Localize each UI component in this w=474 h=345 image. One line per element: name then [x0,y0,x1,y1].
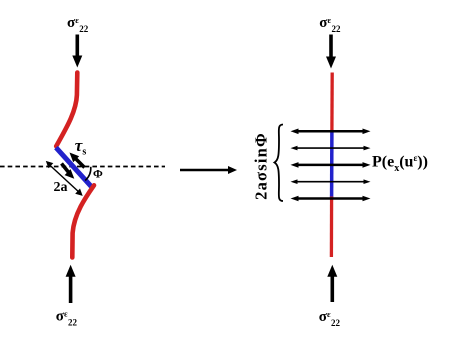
svg-text:Φ: Φ [93,167,103,181]
bottom arrow right (upward) [327,265,337,302]
red crack upper arm [56,73,77,147]
red straight crack upper part (right panel) [330,73,334,133]
angle arc Phi [85,167,91,181]
distributed load arrow 2 [291,146,371,151]
red crack lower vertical end + bottom arrow left (upward) [66,265,76,303]
label sigma^e_22 bottom-right [319,309,341,328]
distributed load arrow 1 [291,129,371,135]
label sigma^e_22 bottom-left [56,308,78,327]
2a double arrow [46,161,83,196]
red crack lower arm [72,185,94,257]
label sigma^e_22 top-left [67,15,89,34]
label sigma^e_22 top-right [319,15,341,34]
svg-text:22: 22 [68,317,78,327]
svg-text:2aσsinΦ: 2aσsinΦ [252,132,271,200]
blue crack segment (left panel) [56,148,91,187]
shear arrow lower (points down-right) [62,164,75,179]
distributed load arrow 4 [291,179,371,184]
red straight crack lower part (right panel) [330,197,334,258]
svg-text:22: 22 [79,24,89,34]
distributed load arrow 3 (middle) [291,162,371,168]
mapping arrow between panels [180,166,237,174]
blue segment (right panel) [330,131,334,198]
dashed symmetry axis [0,166,165,168]
svg-text:22: 22 [331,318,341,328]
curly brace [275,125,284,202]
arrow sigma top-right (downward) [326,35,336,69]
svg-text:2a: 2a [54,180,68,195]
distributed load arrow 5 [291,196,371,202]
shear arrow upper (points up-left) [70,153,85,168]
arrow sigma top-left (downward) [72,35,82,68]
svg-text:22: 22 [332,24,342,34]
